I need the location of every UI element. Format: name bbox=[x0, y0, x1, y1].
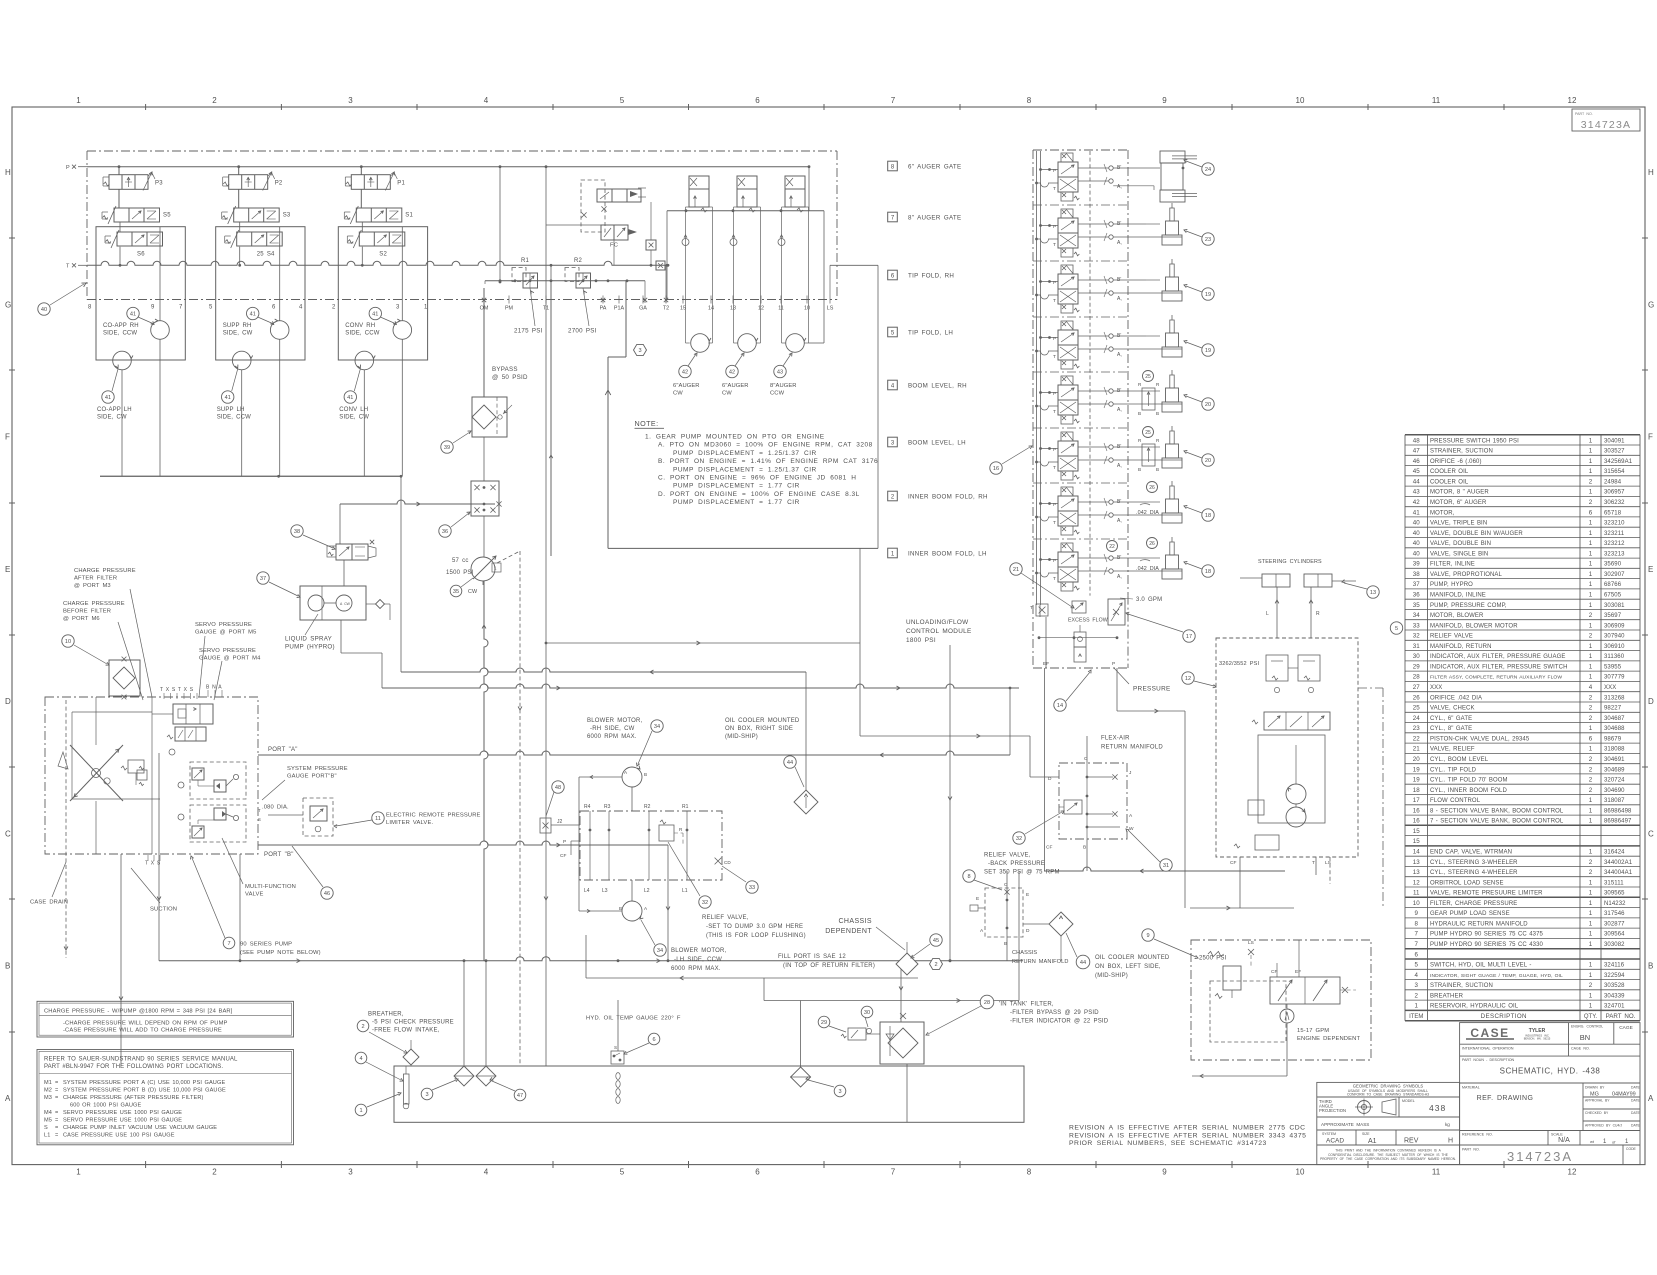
svg-text:20: 20 bbox=[1205, 402, 1211, 408]
svg-text:REVISION A IS EFFECTIVE AFTER: REVISION A IS EFFECTIVE AFTER SERIAL NUM… bbox=[1069, 1132, 1306, 1139]
valve group rect P3 bbox=[96, 227, 185, 360]
svg-text:5: 5 bbox=[620, 96, 625, 105]
right strainer 3 bbox=[791, 1067, 811, 1087]
svg-text:SERVO PRESSURE USE 1000 PSI: SERVO PRESSURE USE 1000 PSI GAUGE bbox=[63, 1118, 182, 1124]
steering cylinder R bbox=[1304, 574, 1332, 587]
svg-text:A CW: A CW bbox=[340, 602, 351, 606]
svg-text:LIQUID SPRAY: LIQUID SPRAY bbox=[285, 636, 332, 643]
svg-text:-RH SIDE, CW: -RH SIDE, CW bbox=[590, 726, 635, 732]
gear pump 9 rect bbox=[1270, 977, 1340, 1004]
svg-text:SIDE, CCW: SIDE, CCW bbox=[217, 415, 251, 421]
svg-text:CHARGE PRESSURE: CHARGE PRESSURE bbox=[63, 601, 125, 607]
svg-text:CASE DRAIN: CASE DRAIN bbox=[30, 900, 68, 906]
valve group rect P1 bbox=[338, 227, 427, 360]
section divider bbox=[1033, 260, 1128, 262]
svg-text:GAUGE @ PORT M4: GAUGE @ PORT M4 bbox=[199, 656, 261, 662]
svg-text:T: T bbox=[1053, 242, 1056, 248]
svg-text:W: W bbox=[1129, 826, 1134, 832]
svg-text:304689: 304689 bbox=[1604, 767, 1625, 773]
svg-text:12: 12 bbox=[1568, 96, 1577, 105]
svg-text:15: 15 bbox=[1413, 838, 1420, 845]
svg-text:306957: 306957 bbox=[1604, 490, 1625, 496]
svg-text:6" AUGER GATE: 6" AUGER GATE bbox=[908, 164, 961, 171]
circled ref 20 bbox=[1202, 454, 1214, 466]
svg-text:12: 12 bbox=[1568, 1168, 1577, 1177]
check throttle bbox=[778, 239, 785, 246]
svg-text:G: G bbox=[1648, 300, 1654, 309]
pm supply wire bbox=[499, 167, 501, 282]
svg-text:1: 1 bbox=[1589, 879, 1593, 886]
svg-text:=: = bbox=[55, 1095, 58, 1101]
svg-text:4: 4 bbox=[359, 1056, 362, 1062]
svg-text:31: 31 bbox=[1163, 863, 1169, 869]
cylinder section 2 bbox=[1170, 486, 1174, 499]
svg-text:=: = bbox=[55, 1133, 58, 1139]
svg-text:8 - SECTION VALVE BANK, BOOM C: 8 - SECTION VALVE BANK, BOOM CONTROL bbox=[1430, 808, 1564, 814]
svg-text:D: D bbox=[1048, 776, 1052, 782]
svg-text:1: 1 bbox=[1589, 818, 1593, 825]
leader lines callouts bbox=[130, 589, 152, 697]
svg-text:SUPP RH: SUPP RH bbox=[223, 323, 252, 329]
svg-text:P: P bbox=[1112, 661, 1115, 667]
svg-text:438: 438 bbox=[1429, 1103, 1446, 1113]
wires to return bus bbox=[401, 339, 403, 476]
svg-text:APPROVAL BY: APPROVAL BY bbox=[1585, 1099, 1610, 1103]
bank section spool 3 bbox=[1061, 432, 1073, 441]
solenoid valve 25 S4 bbox=[237, 232, 283, 246]
svg-text:1: 1 bbox=[1589, 622, 1593, 629]
chassis manifold dashed box bbox=[985, 888, 1023, 937]
svg-text:SUCTION: SUCTION bbox=[150, 907, 177, 913]
svg-text:BEFORE FILTER: BEFORE FILTER bbox=[63, 609, 111, 615]
svg-text:1: 1 bbox=[1589, 962, 1593, 969]
svg-text:J2: J2 bbox=[557, 819, 563, 825]
svg-text:CASE: CASE bbox=[1470, 1026, 1509, 1040]
svg-text:17: 17 bbox=[1413, 797, 1420, 804]
svg-text:CYL., INNER BOOM FOLD: CYL., INNER BOOM FOLD bbox=[1430, 788, 1507, 794]
svg-text:@ 50 PSID: @ 50 PSID bbox=[492, 374, 528, 381]
svg-text:CYL., 6" GATE: CYL., 6" GATE bbox=[1430, 716, 1472, 722]
svg-text:MG: MG bbox=[1590, 1092, 1599, 1098]
svg-text:314723A: 314723A bbox=[1581, 119, 1631, 131]
svg-text:SYSTEM PRESSURE: SYSTEM PRESSURE bbox=[287, 766, 348, 772]
bank section spool 4 bbox=[1061, 376, 1073, 385]
svg-text:2175 PSI: 2175 PSI bbox=[514, 328, 543, 335]
work ports bbox=[1109, 166, 1113, 170]
svg-text:RELIEF VALVE: RELIEF VALVE bbox=[1430, 634, 1473, 640]
piston check valves sections 4/3 bbox=[1142, 388, 1155, 410]
svg-text:.042 DIA: .042 DIA bbox=[1136, 566, 1159, 572]
svg-text:22: 22 bbox=[1109, 544, 1115, 550]
svg-text:A,: A, bbox=[1117, 518, 1122, 524]
work ports bbox=[1109, 334, 1113, 338]
flow control valve 17 bbox=[1108, 599, 1125, 625]
svg-text:24: 24 bbox=[1413, 715, 1420, 722]
svg-text:1: 1 bbox=[1589, 540, 1593, 547]
in-tank filter 28 bbox=[880, 1022, 924, 1064]
svg-text:RELIEF VALVE,: RELIEF VALVE, bbox=[984, 853, 1031, 859]
auger motors bbox=[691, 334, 710, 353]
svg-text:E: E bbox=[5, 565, 10, 574]
blower manifold connections bbox=[551, 824, 580, 826]
svg-text:25 S4: 25 S4 bbox=[257, 252, 275, 258]
svg-text:ON BOX, RIGHT SIDE: ON BOX, RIGHT SIDE bbox=[725, 726, 793, 732]
svg-text:P: P bbox=[1053, 224, 1056, 230]
triple-bin manifold dash-dot boundary bbox=[87, 150, 837, 152]
svg-text:RELIEF VALVE,: RELIEF VALVE, bbox=[702, 915, 749, 921]
svg-text:CYL., STEERING 3-WHEELER: CYL., STEERING 3-WHEELER bbox=[1430, 860, 1518, 866]
svg-text:41: 41 bbox=[250, 312, 256, 318]
svg-text:18: 18 bbox=[1205, 569, 1211, 575]
svg-text:9: 9 bbox=[1162, 96, 1167, 105]
circled 46 bbox=[321, 887, 333, 899]
svg-text:1: 1 bbox=[1589, 468, 1593, 475]
svg-text:.042 DIA: .042 DIA bbox=[1136, 510, 1159, 516]
circled 17 callout bbox=[1183, 630, 1195, 642]
svg-text:SIZE: SIZE bbox=[1362, 1132, 1370, 1136]
svg-text:STEERING CYLINDERS: STEERING CYLINDERS bbox=[1258, 559, 1322, 565]
svg-text:BOOM LEVEL, LH: BOOM LEVEL, LH bbox=[908, 440, 966, 447]
svg-text:2: 2 bbox=[212, 1168, 217, 1177]
svg-text:1: 1 bbox=[1589, 663, 1593, 670]
svg-text:3: 3 bbox=[425, 1092, 428, 1098]
svg-text:318087: 318087 bbox=[1604, 798, 1625, 804]
svg-text:11: 11 bbox=[1432, 96, 1441, 105]
svg-text:04MAY99: 04MAY99 bbox=[1612, 1092, 1636, 1098]
svg-text:DATE: DATE bbox=[1631, 1099, 1641, 1103]
T2 drop wire bbox=[666, 211, 668, 300]
wire auger valve ports bbox=[685, 207, 687, 343]
svg-text:342569A1: 342569A1 bbox=[1604, 459, 1633, 465]
parts list table bbox=[1405, 435, 1640, 1021]
svg-text:S1: S1 bbox=[405, 213, 413, 219]
svg-text:32: 32 bbox=[1413, 633, 1420, 640]
svg-text:18: 18 bbox=[1205, 513, 1211, 519]
svg-text:25: 25 bbox=[1413, 705, 1420, 712]
svg-text:CODE: CODE bbox=[1626, 1147, 1637, 1151]
svg-text:PUMP HYDRO 90 SERIES 75 CC 437: PUMP HYDRO 90 SERIES 75 CC 4375 bbox=[1430, 932, 1544, 938]
svg-text:CHARGE PRESSURE: CHARGE PRESSURE bbox=[74, 568, 136, 574]
svg-text:APPROVED BY CU4/J: APPROVED BY CU4/J bbox=[1585, 1124, 1622, 1128]
svg-text:38: 38 bbox=[294, 529, 300, 535]
svg-text:324116: 324116 bbox=[1604, 963, 1625, 969]
svg-text:-SET TO DUMP 3.0 GPM HERE: -SET TO DUMP 3.0 GPM HERE bbox=[706, 924, 803, 930]
svg-text:23: 23 bbox=[1205, 237, 1211, 243]
svg-text:14: 14 bbox=[708, 306, 714, 312]
svg-text:M5: M5 bbox=[44, 1118, 52, 1124]
svg-text:1: 1 bbox=[1589, 900, 1593, 907]
FC valve bbox=[601, 225, 628, 240]
svg-text:(MID-SHIP): (MID-SHIP) bbox=[1095, 973, 1128, 979]
svg-text:B: B bbox=[1156, 411, 1159, 416]
proportional pilot valve FC top bbox=[597, 189, 641, 202]
svg-text:OIL COOLER MOUNTED: OIL COOLER MOUNTED bbox=[725, 718, 800, 724]
svg-text:302907: 302907 bbox=[1604, 572, 1625, 578]
svg-text:15: 15 bbox=[680, 306, 686, 312]
svg-text:LS: LS bbox=[827, 306, 834, 312]
svg-text:MANIFOLD, INLINE: MANIFOLD, INLINE bbox=[1430, 593, 1486, 599]
svg-text:46: 46 bbox=[324, 891, 330, 897]
svg-text:14: 14 bbox=[1413, 849, 1420, 856]
svg-text:1: 1 bbox=[76, 1168, 81, 1177]
svg-text:CF: CF bbox=[1046, 845, 1052, 851]
svg-text:BOOM LEVEL, RH: BOOM LEVEL, RH bbox=[908, 383, 967, 390]
svg-text:318088: 318088 bbox=[1604, 747, 1625, 753]
svg-text:P: P bbox=[1053, 391, 1056, 397]
svg-text:INDICATOR, SIGHT GUAGE / TEMP,: INDICATOR, SIGHT GUAGE / TEMP, GUAGE, HY… bbox=[1430, 973, 1563, 979]
svg-text:5: 5 bbox=[1395, 626, 1398, 632]
svg-text:9: 9 bbox=[1146, 933, 1149, 939]
svg-text:FLOW CONTROL: FLOW CONTROL bbox=[1430, 798, 1481, 804]
svg-text:L3: L3 bbox=[602, 888, 608, 894]
svg-text:303082: 303082 bbox=[1604, 942, 1625, 948]
svg-text:RETURN MANIFOLD: RETURN MANIFOLD bbox=[1012, 959, 1068, 965]
pump inner rail bbox=[71, 712, 73, 799]
svg-text:(IN TOP OF RETURN FILTER): (IN TOP OF RETURN FILTER) bbox=[783, 963, 875, 969]
svg-text:M4: M4 bbox=[44, 1110, 52, 1116]
motor ('CONV RH', 'SIDE, CCW') bbox=[393, 321, 412, 340]
svg-text:CW: CW bbox=[468, 589, 478, 595]
90 series pump text bbox=[223, 937, 235, 949]
svg-text:18: 18 bbox=[1413, 787, 1420, 794]
servo valve top bbox=[173, 704, 213, 724]
svg-text:1: 1 bbox=[1589, 992, 1593, 999]
svg-text:MOTOR, BLOWER: MOTOR, BLOWER bbox=[1430, 613, 1484, 619]
title block bbox=[1317, 1023, 1640, 1165]
svg-text:BLOWER MOTOR,: BLOWER MOTOR, bbox=[671, 948, 726, 954]
solenoid valve S2 bbox=[359, 232, 405, 246]
inline manifold 36 bbox=[471, 481, 499, 516]
motor ('SUPP LH', 'SIDE, CCW') bbox=[232, 351, 251, 370]
P rail wire bbox=[87, 166, 809, 168]
svg-text:EXCESS FLOW: EXCESS FLOW bbox=[1068, 618, 1108, 624]
J2 port box bbox=[540, 818, 551, 833]
svg-text:3: 3 bbox=[638, 348, 641, 354]
wire y643 bbox=[546, 642, 860, 644]
svg-text:STRAINER, SUCTION: STRAINER, SUCTION bbox=[1430, 449, 1493, 455]
svg-text:43: 43 bbox=[1413, 489, 1420, 496]
svg-text:T2: T2 bbox=[663, 306, 669, 312]
svg-text:-CASE PRESSURE WILL ADD TO CHA: -CASE PRESSURE WILL ADD TO CHARGE PRESSU… bbox=[63, 1028, 222, 1034]
svg-text:7: 7 bbox=[1415, 941, 1419, 948]
svg-text:H: H bbox=[1448, 1138, 1453, 1145]
svg-text:304091: 304091 bbox=[1604, 438, 1625, 444]
svg-text:HYDRAULIC RETURN MANIFOLD: HYDRAULIC RETURN MANIFOLD bbox=[1430, 921, 1528, 927]
svg-text:42: 42 bbox=[1413, 499, 1420, 506]
motor ('CO-APP LH', 'SIDE, CW') bbox=[113, 351, 132, 370]
note block frame / P1A return wire bbox=[625, 281, 627, 357]
P junction dot P1 bbox=[360, 165, 363, 168]
svg-text:314723A: 314723A bbox=[1507, 1149, 1573, 1164]
circled ref 24 bbox=[1202, 163, 1214, 175]
svg-text:@ PORT M6: @ PORT M6 bbox=[63, 616, 100, 622]
svg-text:PUMP, HYPRO: PUMP, HYPRO bbox=[1430, 582, 1473, 588]
svg-text:OIL COOLER MOUNTED: OIL COOLER MOUNTED bbox=[1095, 955, 1170, 961]
svg-text:A,: A, bbox=[1117, 574, 1122, 580]
svg-text:1: 1 bbox=[1589, 941, 1593, 948]
svg-text:P2: P2 bbox=[275, 181, 283, 187]
svg-text:T: T bbox=[1030, 605, 1033, 611]
svg-text:1: 1 bbox=[1589, 890, 1593, 897]
svg-text:=: = bbox=[55, 1118, 58, 1124]
svg-text:PART NO.: PART NO. bbox=[1575, 112, 1593, 116]
svg-text:BREATHER: BREATHER bbox=[1430, 993, 1464, 999]
T rail scalloped wire bbox=[87, 261, 667, 265]
svg-text:SERVO PRESSURE: SERVO PRESSURE bbox=[199, 648, 256, 654]
svg-text:29: 29 bbox=[821, 1020, 827, 1026]
svg-text:HYD. OIL TEMP GAUGE 220° F: HYD. OIL TEMP GAUGE 220° F bbox=[586, 1016, 681, 1022]
svg-text:45: 45 bbox=[933, 938, 939, 944]
svg-text:41: 41 bbox=[130, 312, 136, 318]
proportional valve 38 bbox=[336, 544, 352, 560]
svg-text:N/A: N/A bbox=[1558, 1137, 1570, 1144]
svg-text:304688: 304688 bbox=[1604, 726, 1625, 732]
svg-text:6"AUGER: 6"AUGER bbox=[673, 383, 700, 389]
svg-text:2: 2 bbox=[1589, 715, 1593, 722]
svg-text:VALVE, DOUBLE BIN W/AUGER: VALVE, DOUBLE BIN W/AUGER bbox=[1430, 531, 1523, 537]
svg-text:B: B bbox=[644, 772, 647, 777]
svg-text:FILTER ASSY, COMPLETE, RETURN: FILTER ASSY, COMPLETE, RETURN AUXILIARY … bbox=[1430, 675, 1562, 681]
circled ref 18 bbox=[1202, 565, 1214, 577]
bank section spool 5 bbox=[1061, 321, 1073, 330]
svg-text:CAGE: CAGE bbox=[1619, 1025, 1633, 1031]
svg-text:STRAINER, SUCTION: STRAINER, SUCTION bbox=[1430, 983, 1493, 989]
svg-text:-FILTER BYPASS @ 29 PSID: -FILTER BYPASS @ 29 PSID bbox=[1010, 1010, 1099, 1016]
svg-text:4: 4 bbox=[484, 1168, 489, 1177]
svg-text:C. PORT ON ENGINE = 96%: C. PORT ON ENGINE = 96% OF ENGINE JD 608… bbox=[658, 475, 856, 482]
suction strainers 3/47 bbox=[454, 1066, 474, 1086]
svg-text:D: D bbox=[1026, 928, 1030, 934]
flex-air valve 32 bbox=[1064, 800, 1082, 814]
wire liquid spray down bbox=[340, 620, 342, 653]
svg-text:16: 16 bbox=[1413, 807, 1420, 814]
svg-text:F: F bbox=[5, 433, 10, 442]
svg-text:S2: S2 bbox=[379, 252, 387, 258]
svg-text:1: 1 bbox=[1589, 1003, 1593, 1010]
svg-text:1: 1 bbox=[1589, 489, 1593, 496]
steering cylinder L bbox=[1262, 574, 1290, 587]
work ports bbox=[1109, 500, 1113, 504]
svg-text:1: 1 bbox=[1589, 520, 1593, 527]
blower manifold 33 dash-dot box bbox=[580, 811, 722, 880]
svg-text:1: 1 bbox=[1589, 458, 1593, 465]
svg-text:A: A bbox=[5, 1094, 11, 1103]
bank section spool 2 bbox=[1061, 487, 1073, 496]
svg-text:PISTON-CHK VALVE DUAL, 29345: PISTON-CHK VALVE DUAL, 29345 bbox=[1430, 736, 1530, 742]
svg-text:1: 1 bbox=[1589, 653, 1593, 660]
svg-text:DRAWN BY: DRAWN BY bbox=[1585, 1086, 1605, 1090]
circled ref 23 bbox=[1202, 233, 1214, 245]
wire y688 long bbox=[382, 684, 1019, 688]
svg-text:1: 1 bbox=[1589, 797, 1593, 804]
svg-text:A,: A, bbox=[1117, 184, 1122, 190]
svg-text:T: T bbox=[1053, 520, 1056, 526]
wire 57cc down bbox=[482, 581, 484, 585]
svg-text:CHARGE PUMP INLET VACUUM USE: CHARGE PUMP INLET VACUUM USE VACUUM GAUG… bbox=[63, 1125, 217, 1131]
svg-text:1: 1 bbox=[1589, 561, 1593, 568]
svg-text:40: 40 bbox=[1413, 550, 1420, 557]
svg-text:35: 35 bbox=[1413, 602, 1420, 609]
case drain dashed bbox=[65, 700, 67, 958]
svg-text:DEPENDENT: DEPENDENT bbox=[825, 928, 872, 935]
svg-text:A,: A, bbox=[1117, 463, 1122, 469]
svg-text:1: 1 bbox=[359, 1108, 362, 1114]
svg-text:CO-APP RH: CO-APP RH bbox=[103, 323, 139, 329]
valve group rect P2 bbox=[216, 227, 305, 360]
svg-text:307940: 307940 bbox=[1604, 634, 1625, 640]
svg-text:-BACK PRESSURE: -BACK PRESSURE bbox=[988, 861, 1045, 867]
excess flow valve bbox=[1072, 601, 1086, 613]
svg-text:41: 41 bbox=[1413, 509, 1420, 516]
svg-text:CONV RH: CONV RH bbox=[345, 323, 375, 329]
svg-text:CYL., 8" GATE: CYL., 8" GATE bbox=[1430, 726, 1472, 732]
svg-text:PUMP DISPLACEMENT = 1.25/1.3: PUMP DISPLACEMENT = 1.25/1.37 CIR bbox=[673, 450, 817, 457]
svg-text:PUMP, PRESSURE COMP,: PUMP, PRESSURE COMP, bbox=[1430, 603, 1507, 609]
svg-text:33: 33 bbox=[1413, 622, 1420, 629]
svg-text:CYL.. TIP FOLD: CYL.. TIP FOLD bbox=[1430, 767, 1477, 773]
svg-text:1: 1 bbox=[1589, 920, 1593, 927]
svg-text:11: 11 bbox=[1432, 1168, 1441, 1177]
svg-text:86986497: 86986497 bbox=[1604, 819, 1632, 825]
svg-text:XXX: XXX bbox=[1430, 685, 1442, 691]
svg-text:19: 19 bbox=[1413, 777, 1420, 784]
svg-text:MULTI-FUNCTION: MULTI-FUNCTION bbox=[245, 884, 296, 890]
svg-text:BN: BN bbox=[1580, 1033, 1590, 1042]
servo valve 2 bbox=[175, 727, 206, 741]
svg-text:30: 30 bbox=[864, 1010, 870, 1016]
svg-text:MATERIAL: MATERIAL bbox=[1462, 1086, 1480, 1090]
svg-text:VALVE, TRIPLE BIN: VALVE, TRIPLE BIN bbox=[1430, 521, 1487, 527]
svg-text:17: 17 bbox=[1186, 634, 1192, 640]
load sense throttle bbox=[1248, 949, 1254, 955]
P junction dot P3 bbox=[118, 165, 121, 168]
svg-text:END CAP, VALVE, WTRMAN: END CAP, VALVE, WTRMAN bbox=[1430, 850, 1512, 856]
svg-text:1: 1 bbox=[1415, 1003, 1419, 1010]
svg-text:6: 6 bbox=[1589, 735, 1593, 742]
svg-text:PM: PM bbox=[505, 306, 514, 312]
svg-text:CF: CF bbox=[560, 853, 566, 859]
svg-text:2: 2 bbox=[1589, 756, 1593, 763]
svg-text:ORIFICE -6 (.060): ORIFICE -6 (.060) bbox=[1430, 459, 1482, 465]
svg-text:CASE PRESSURE USE 100 PSI GA: CASE PRESSURE USE 100 PSI GAUGE bbox=[63, 1133, 175, 1139]
charge relief bbox=[128, 760, 144, 773]
wire return bus to right bbox=[100, 475, 401, 477]
multifunction valve B bbox=[190, 805, 246, 842]
svg-text:SYSTEM PRESSURE PORT A (C) U: SYSTEM PRESSURE PORT A (C) USE 10,000 PS… bbox=[63, 1080, 225, 1086]
svg-text:3: 3 bbox=[1415, 982, 1419, 989]
svg-text:41: 41 bbox=[105, 395, 111, 401]
blower motor RH circle bbox=[622, 767, 642, 787]
svg-text:303528: 303528 bbox=[1604, 983, 1625, 989]
svg-text:G: G bbox=[5, 300, 11, 309]
svg-text:4: 4 bbox=[1415, 972, 1419, 979]
svg-text:53955: 53955 bbox=[1604, 664, 1622, 670]
svg-text:1: 1 bbox=[1589, 849, 1593, 856]
svg-text:R2: R2 bbox=[644, 804, 651, 810]
svg-text:ON BOX, LEFT SIDE,: ON BOX, LEFT SIDE, bbox=[1095, 964, 1161, 970]
svg-text:PA: PA bbox=[600, 306, 607, 312]
svg-text:GA: GA bbox=[639, 306, 647, 312]
svg-text:L: L bbox=[1266, 611, 1269, 617]
svg-text:CO-APP LH: CO-APP LH bbox=[97, 407, 132, 413]
svg-text:PORT "B": PORT "B" bbox=[264, 852, 294, 858]
section divider bbox=[1033, 538, 1128, 540]
svg-text:16: 16 bbox=[1413, 818, 1420, 825]
svg-text:1: 1 bbox=[1589, 725, 1593, 732]
svg-text:303527: 303527 bbox=[1604, 449, 1625, 455]
svg-text:=: = bbox=[55, 1087, 58, 1093]
ls loop wire bbox=[877, 265, 879, 548]
